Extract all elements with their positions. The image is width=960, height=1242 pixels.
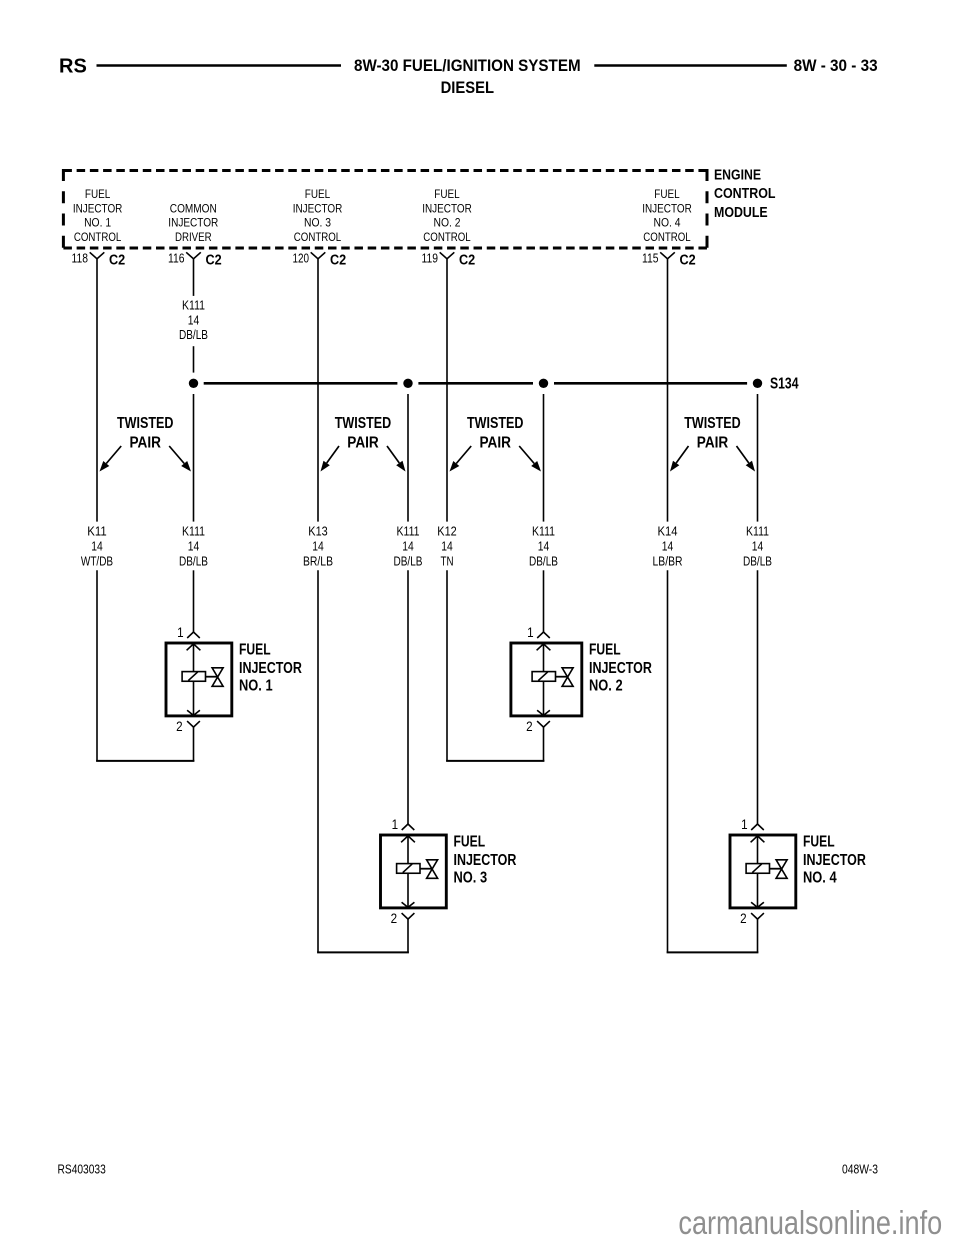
fuel injector no. 2 component box xyxy=(511,643,582,716)
svg-text:PAIR: PAIR xyxy=(697,435,729,452)
twisted pair annotation 1 xyxy=(117,415,174,452)
fuel injector no. 2 link to valve xyxy=(556,676,568,678)
wire K14 14 LB/BR, lower segment to fuel injector no. 4 pin 2 xyxy=(667,570,669,952)
svg-text:INJECTOR: INJECTOR xyxy=(168,218,218,230)
svg-text:INJECTOR: INJECTOR xyxy=(422,203,472,215)
svg-text:CONTROL: CONTROL xyxy=(423,232,471,244)
svg-text:CONTROL: CONTROL xyxy=(714,186,776,202)
header rule left xyxy=(97,64,342,66)
svg-text:INJECTOR: INJECTOR xyxy=(293,203,343,215)
fuel injector no. 1 pin 2 male terminal arrow xyxy=(187,710,200,715)
svg-text:120: 120 xyxy=(293,251,310,266)
wire K111 14 DB/LB from ECM pin 116, segment into splice S134 bus xyxy=(193,346,195,372)
svg-text:INJECTOR: INJECTOR xyxy=(642,203,692,215)
svg-text:1: 1 xyxy=(527,625,534,640)
svg-text:C2: C2 xyxy=(109,252,125,268)
fuel injector no. 3 component name xyxy=(454,834,517,887)
fuel injector no. 1 component box xyxy=(166,643,232,716)
fuel injector no. 1 link to valve xyxy=(206,676,218,678)
splice S134 bus wire segment 1 xyxy=(204,382,398,385)
wire label K111 14 DB/LB xyxy=(743,523,772,568)
fuel injector no. 2 pin 2 wire stem xyxy=(543,727,545,761)
wire K111 14 DB/LB from bus junction, pair 2 upper xyxy=(407,394,409,522)
fuel injector no. 3 link to valve xyxy=(420,868,432,870)
fuel injector no. 3 pin 2 wire stem xyxy=(407,919,409,952)
fuel injector no. 2 internal wire lower xyxy=(543,681,545,715)
fuel injector no. 4 pin 2 female connector chevron xyxy=(751,913,764,919)
svg-text:NO. 4: NO. 4 xyxy=(654,218,682,230)
fuel injector no. 3 valve hourglass symbol xyxy=(427,860,438,879)
svg-text:C2: C2 xyxy=(206,252,222,268)
wire label K13 14 BR/LB xyxy=(303,523,333,568)
svg-text:C2: C2 xyxy=(459,252,475,268)
svg-text:CONTROL: CONTROL xyxy=(294,232,342,244)
wire label K111 14 DB/LB xyxy=(529,523,558,568)
svg-text:MODULE: MODULE xyxy=(714,205,768,221)
svg-text:14: 14 xyxy=(188,313,200,328)
svg-text:NO. 1: NO. 1 xyxy=(239,677,273,694)
svg-text:14: 14 xyxy=(188,538,200,553)
svg-text:INJECTOR: INJECTOR xyxy=(73,203,123,215)
twisted pair 1 left arrow xyxy=(100,446,122,472)
svg-text:NO. 2: NO. 2 xyxy=(589,677,623,694)
splice S134 junction dot xyxy=(753,379,762,388)
svg-text:1: 1 xyxy=(177,625,184,640)
wire K14 horizontal run to injector 4 pin 2 xyxy=(667,951,759,953)
fuel injector no. 2 pin 2 male terminal arrow xyxy=(537,710,550,715)
junction dot at pin 116 wire xyxy=(189,379,198,388)
ECM pin function label: fuel injector no. 3 control xyxy=(293,189,343,244)
twisted pair 2 left arrow xyxy=(321,446,340,472)
wire K11 14 WT/DB from ECM pin 118, upper segment xyxy=(96,259,98,522)
junction dot pair 3 xyxy=(539,379,548,388)
svg-text:TWISTED: TWISTED xyxy=(467,415,524,432)
svg-text:2: 2 xyxy=(740,911,747,926)
wire K111 14 DB/LB from ECM pin 116 to splice bus, upper segment xyxy=(193,259,195,296)
fuel injector no. 3 solenoid coil diagonal xyxy=(403,864,412,873)
svg-text:DRIVER: DRIVER xyxy=(175,232,212,244)
svg-text:K111: K111 xyxy=(182,523,205,538)
svg-text:048W-3: 048W-3 xyxy=(842,1162,878,1176)
svg-text:INJECTOR: INJECTOR xyxy=(589,660,652,677)
fuel injector no. 1 component name xyxy=(239,642,302,695)
svg-text:2: 2 xyxy=(526,719,533,734)
fuel injector no. 2 pin 2 female connector chevron xyxy=(537,721,550,727)
svg-text:DB/LB: DB/LB xyxy=(743,553,772,568)
svg-text:FUEL: FUEL xyxy=(305,189,331,201)
svg-text:TWISTED: TWISTED xyxy=(117,415,174,432)
connector C2 pin 115: female connector Y symbol xyxy=(660,252,675,258)
svg-text:RS: RS xyxy=(59,55,87,77)
svg-text:FUEL: FUEL xyxy=(239,642,271,659)
wire K111 14 DB/LB from bus junction to label, pair 1 xyxy=(193,394,195,522)
wire K12 horizontal run to injector 2 pin 2 xyxy=(446,760,544,762)
fuel injector no. 4 internal wire lower xyxy=(757,873,759,907)
svg-text:BR/LB: BR/LB xyxy=(303,553,333,568)
svg-text:2: 2 xyxy=(391,911,398,926)
fuel injector no. 2 pin 1 female connector chevron xyxy=(537,632,550,638)
engine control module name xyxy=(714,167,776,221)
svg-text:119: 119 xyxy=(422,251,439,266)
svg-text:C2: C2 xyxy=(680,252,696,268)
wire K111 14 DB/LB to fuel injector no. 1 pin 1 xyxy=(193,570,195,632)
ECM pin function label: fuel injector no. 4 control xyxy=(642,189,692,244)
svg-text:FUEL: FUEL xyxy=(434,189,460,201)
twisted pair annotation 2 xyxy=(335,415,392,452)
connector C2 pin 119: female connector Y symbol xyxy=(440,252,455,258)
fuel injector no. 4 pin 1 female connector chevron xyxy=(751,824,764,830)
fuel injector no. 4 pin 2 wire stem xyxy=(757,919,759,952)
svg-text:118: 118 xyxy=(72,251,89,266)
svg-text:2: 2 xyxy=(176,719,183,734)
twisted pair annotation 4 xyxy=(684,415,741,452)
fuel injector no. 4 link to valve xyxy=(770,868,782,870)
svg-text:K13: K13 xyxy=(308,523,327,538)
svg-text:115: 115 xyxy=(642,251,659,266)
fuel injector no. 2 solenoid coil diagonal xyxy=(538,672,547,681)
fuel injector no. 1 pin 1 male terminal arrow xyxy=(187,644,201,650)
svg-text:DB/LB: DB/LB xyxy=(179,553,208,568)
splice S134 bus wire segment 3 xyxy=(554,382,747,385)
fuel injector no. 3 internal wire lower xyxy=(407,873,409,907)
wire label K14 14 LB/BR xyxy=(653,523,683,568)
svg-text:14: 14 xyxy=(752,538,764,553)
svg-text:NO. 4: NO. 4 xyxy=(803,869,837,886)
fuel injector no. 1 pin 2 female connector chevron xyxy=(187,721,200,727)
engine control module dashed box xyxy=(63,169,707,250)
fuel injector no. 4 component name xyxy=(803,834,866,887)
svg-text:116: 116 xyxy=(168,251,185,266)
svg-text:CONTROL: CONTROL xyxy=(74,232,122,244)
svg-text:DB/LB: DB/LB xyxy=(529,553,558,568)
svg-text:14: 14 xyxy=(662,538,674,553)
svg-text:NO. 3: NO. 3 xyxy=(454,869,488,886)
fuel injector no. 3 pin 1 male terminal arrow xyxy=(401,836,415,842)
svg-text:RS403033: RS403033 xyxy=(58,1162,106,1176)
fuel injector no. 4 solenoid coil diagonal xyxy=(752,864,761,873)
fuel injector no. 3 solenoid coil box xyxy=(397,864,420,874)
svg-text:INJECTOR: INJECTOR xyxy=(454,852,517,869)
wire label K11 14 WT/DB xyxy=(81,523,113,568)
splice S134 bus wire segment 2 xyxy=(418,382,533,385)
twisted pair annotation 3 xyxy=(467,415,524,452)
svg-text:INJECTOR: INJECTOR xyxy=(239,660,302,677)
svg-text:K111: K111 xyxy=(182,298,205,313)
fuel injector no. 3 pin 2 male terminal arrow xyxy=(402,902,415,907)
svg-text:DB/LB: DB/LB xyxy=(179,327,208,342)
fuel injector no. 4 internal wire upper xyxy=(757,836,759,864)
fuel injector no. 2 component name xyxy=(589,642,652,695)
svg-text:TWISTED: TWISTED xyxy=(335,415,392,432)
twisted pair 3 left arrow xyxy=(450,446,472,472)
svg-text:carmanualsonline.info: carmanualsonline.info xyxy=(678,1204,942,1241)
svg-text:FUEL: FUEL xyxy=(589,642,621,659)
svg-text:K11: K11 xyxy=(87,523,106,538)
svg-text:NO. 2: NO. 2 xyxy=(434,218,461,230)
fuel injector no. 3 component box xyxy=(381,835,447,908)
fuel injector no. 1 internal wire lower xyxy=(193,681,195,715)
svg-text:ENGINE: ENGINE xyxy=(714,167,761,183)
svg-text:14: 14 xyxy=(538,538,550,553)
wire K11 14 WT/DB, lower segment to fuel injector no. 1 pin 2 xyxy=(96,570,98,761)
svg-text:PAIR: PAIR xyxy=(129,435,161,452)
twisted pair 4 right arrow xyxy=(737,446,756,472)
fuel injector no. 3 internal wire upper xyxy=(407,836,409,864)
fuel injector no. 1 valve hourglass symbol xyxy=(212,668,223,687)
svg-text:COMMON: COMMON xyxy=(170,203,217,215)
wire K111 14 DB/LB to fuel injector no. 4 pin 1 xyxy=(757,570,759,824)
svg-text:NO. 1: NO. 1 xyxy=(84,218,111,230)
svg-text:14: 14 xyxy=(312,538,324,553)
wire K111 14 DB/LB to fuel injector no. 3 pin 1 xyxy=(407,570,409,824)
svg-text:TN: TN xyxy=(441,553,454,568)
connector C2 pin 118: female connector Y symbol xyxy=(90,252,105,258)
wire label K12 14 TN xyxy=(437,523,456,568)
svg-text:PAIR: PAIR xyxy=(479,435,511,452)
twisted pair 1 right arrow xyxy=(169,446,191,472)
junction dot pair 2 xyxy=(403,379,412,388)
svg-text:K14: K14 xyxy=(658,523,678,538)
fuel injector no. 1 solenoid coil diagonal xyxy=(188,672,197,681)
svg-text:K12: K12 xyxy=(437,523,456,538)
wire K13 14 BR/LB, lower segment to fuel injector no. 3 pin 2 xyxy=(317,570,319,952)
fuel injector no. 2 pin 1 male terminal arrow xyxy=(537,644,551,650)
svg-text:S134: S134 xyxy=(770,376,799,393)
svg-text:K111: K111 xyxy=(532,523,555,538)
wire label K111 14 DB/LB xyxy=(179,523,208,568)
svg-text:1: 1 xyxy=(392,817,399,832)
svg-text:FUEL: FUEL xyxy=(454,834,486,851)
wire label K111 14 DB/LB (pin 116 to splice) xyxy=(179,298,208,343)
fuel injector no. 2 valve hourglass symbol xyxy=(562,668,573,687)
fuel injector no. 2 internal wire upper xyxy=(543,644,545,672)
twisted pair 3 right arrow xyxy=(519,446,541,472)
svg-text:FUEL: FUEL xyxy=(803,834,835,851)
svg-text:NO. 3: NO. 3 xyxy=(304,218,331,230)
ECM pin function label: common injector driver xyxy=(168,203,218,244)
wire K13 14 BR/LB from ECM pin 120, upper segment xyxy=(317,259,319,522)
ECM pin function label: fuel injector no. 1 control xyxy=(73,189,123,244)
wire K12 14 TN from ECM pin 119, upper segment xyxy=(446,259,448,522)
svg-text:INJECTOR: INJECTOR xyxy=(803,852,866,869)
twisted pair 4 left arrow xyxy=(670,446,689,472)
wire K11 horizontal run to injector 1 pin 2 xyxy=(96,760,194,762)
ECM pin function label: fuel injector no. 2 control xyxy=(422,189,472,244)
svg-text:14: 14 xyxy=(91,538,103,553)
svg-text:DIESEL: DIESEL xyxy=(441,78,494,97)
svg-text:DB/LB: DB/LB xyxy=(394,553,423,568)
fuel injector no. 1 internal wire upper xyxy=(193,644,195,672)
fuel injector no. 4 solenoid coil box xyxy=(746,864,769,874)
fuel injector no. 2 solenoid coil box xyxy=(532,672,555,682)
svg-text:CONTROL: CONTROL xyxy=(643,232,691,244)
svg-text:FUEL: FUEL xyxy=(85,189,111,201)
fuel injector no. 4 valve hourglass symbol xyxy=(776,860,787,879)
header rule right xyxy=(594,64,787,66)
fuel injector no. 3 pin 2 female connector chevron xyxy=(402,913,415,919)
wire K111 14 DB/LB from bus junction, pair 3 upper xyxy=(543,394,545,522)
fuel injector no. 1 solenoid coil box xyxy=(182,672,205,682)
fuel injector no. 3 pin 1 female connector chevron xyxy=(402,824,415,830)
svg-text:1: 1 xyxy=(741,817,748,832)
svg-text:8W - 30 - 33: 8W - 30 - 33 xyxy=(794,56,878,75)
wire label K111 14 DB/LB xyxy=(394,523,423,568)
wire K13 horizontal run to injector 3 pin 2 xyxy=(317,951,409,953)
connector C2 pin 116: female connector Y symbol xyxy=(186,252,201,258)
svg-text:14: 14 xyxy=(402,538,414,553)
svg-text:WT/DB: WT/DB xyxy=(81,553,113,568)
fuel injector no. 4 pin 2 male terminal arrow xyxy=(751,902,764,907)
svg-text:14: 14 xyxy=(441,538,453,553)
wire K111 14 DB/LB from splice S134, pair 4 upper xyxy=(757,394,759,522)
wire K111 14 DB/LB to fuel injector no. 2 pin 1 xyxy=(543,570,545,632)
fuel injector no. 1 pin 1 female connector chevron xyxy=(187,632,200,638)
fuel injector no. 1 pin 2 wire stem xyxy=(193,727,195,761)
connector C2 pin 120: female connector Y symbol xyxy=(311,252,326,258)
svg-text:K111: K111 xyxy=(746,523,769,538)
twisted pair 2 right arrow xyxy=(387,446,406,472)
fuel injector no. 4 pin 1 male terminal arrow xyxy=(751,836,765,842)
svg-text:K111: K111 xyxy=(397,523,420,538)
svg-text:FUEL: FUEL xyxy=(654,189,680,201)
wire K12 14 TN, lower segment to fuel injector no. 2 pin 2 xyxy=(446,570,448,761)
wire K14 14 LB/BR from ECM pin 115, upper segment xyxy=(667,259,669,522)
svg-text:LB/BR: LB/BR xyxy=(653,553,683,568)
svg-text:8W-30 FUEL/IGNITION SYSTEM: 8W-30 FUEL/IGNITION SYSTEM xyxy=(354,56,581,75)
svg-text:PAIR: PAIR xyxy=(347,435,379,452)
fuel injector no. 4 component box xyxy=(730,835,796,908)
svg-text:TWISTED: TWISTED xyxy=(684,415,741,432)
svg-text:C2: C2 xyxy=(330,252,346,268)
